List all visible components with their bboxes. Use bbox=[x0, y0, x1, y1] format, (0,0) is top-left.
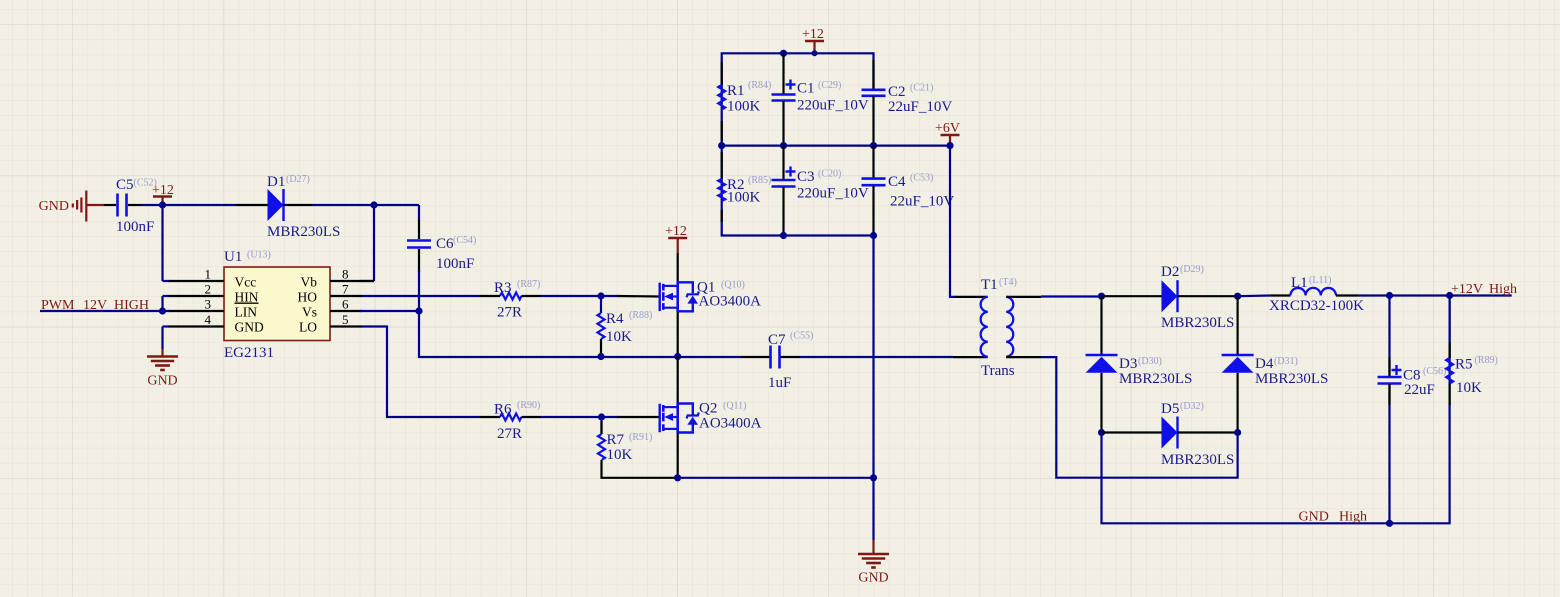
wire +12 rail to D1 bbox=[163, 204, 237, 206]
transformer T1 secondary lead top bbox=[1006, 296, 1041, 298]
svg-text:D2: D2 bbox=[1161, 264, 1179, 280]
svg-text:HIN: HIN bbox=[235, 290, 259, 305]
wire D4 branch upper bbox=[1236, 296, 1238, 355]
svg-text:+12V: +12V bbox=[1451, 282, 1483, 297]
svg-text:C5: C5 bbox=[116, 177, 134, 193]
node +12/Vcc junction bbox=[159, 201, 166, 208]
net label PWM_12V_HIGH bbox=[41, 298, 149, 313]
svg-text:(C21): (C21) bbox=[910, 83, 933, 94]
wire Vs down to mid rail bbox=[419, 311, 601, 357]
svg-text:100K: 100K bbox=[727, 190, 761, 206]
svg-text:High: High bbox=[1489, 282, 1517, 297]
wire mid rail of RC network bbox=[722, 145, 950, 147]
svg-text:(R87): (R87) bbox=[517, 279, 540, 290]
svg-text:(C54): (C54) bbox=[453, 235, 476, 246]
ground GND under U1 bbox=[147, 349, 178, 389]
resistor R5 bbox=[1446, 296, 1498, 406]
wire secondary top to bridge bbox=[1041, 295, 1102, 297]
svg-text:GND: GND bbox=[235, 320, 264, 335]
svg-text:(C20): (C20) bbox=[818, 169, 841, 180]
diode D5 bbox=[1102, 401, 1238, 468]
pin 3 LIN bbox=[163, 297, 225, 312]
svg-text:GND: GND bbox=[39, 199, 69, 214]
svg-text:L1: L1 bbox=[1291, 275, 1308, 291]
svg-text:4: 4 bbox=[205, 312, 212, 327]
svg-text:5: 5 bbox=[342, 312, 349, 327]
diode D2 bbox=[1102, 264, 1238, 331]
svg-text:(C29): (C29) bbox=[818, 80, 841, 91]
wire PWM input bbox=[40, 310, 163, 312]
svg-text:AO3400A: AO3400A bbox=[699, 416, 762, 432]
wire D3 branch upper bbox=[1100, 296, 1102, 355]
svg-text:LO: LO bbox=[299, 320, 317, 335]
svg-text:U1: U1 bbox=[224, 249, 242, 265]
pin 2 HIN bbox=[163, 282, 225, 297]
wire HIN-LIN tie bbox=[161, 296, 163, 311]
node half-bridge mid junction bbox=[674, 353, 681, 360]
resistor R4 bbox=[598, 296, 653, 357]
svg-text:22uF_10V: 22uF_10V bbox=[890, 194, 954, 210]
svg-text:(C55): (C55) bbox=[790, 331, 813, 342]
svg-text:(R85): (R85) bbox=[748, 175, 771, 186]
svg-text:220uF_10V: 220uF_10V bbox=[797, 186, 869, 202]
wire rectified gnd down bbox=[1102, 296, 1450, 523]
resistor R3 bbox=[480, 279, 541, 321]
node bridge top-left junction bbox=[1098, 293, 1105, 300]
svg-text:LIN: LIN bbox=[235, 305, 258, 320]
svg-text:(R89): (R89) bbox=[1475, 355, 1498, 366]
diode D4 bbox=[1222, 355, 1329, 387]
wire gate lead Q2 bbox=[617, 416, 660, 418]
svg-text:Trans: Trans bbox=[981, 363, 1015, 379]
node GND column top junction bbox=[870, 232, 877, 239]
wire Q2 source down bbox=[677, 434, 679, 478]
svg-text:GND: GND bbox=[147, 374, 177, 389]
svg-text:(L11): (L11) bbox=[1309, 275, 1331, 286]
net label +12V_High bbox=[1451, 282, 1517, 297]
wire GND column bbox=[872, 236, 874, 541]
svg-text:(C56): (C56) bbox=[1423, 366, 1446, 377]
node R7 top junction bbox=[598, 413, 605, 420]
pin 8 Vb bbox=[330, 267, 374, 282]
wire C6 to Vs node bbox=[418, 270, 420, 311]
resistor R7 bbox=[598, 417, 678, 478]
node R4 bottom junction bbox=[597, 353, 604, 360]
node C2-C4 junction bbox=[870, 142, 877, 149]
svg-text:(Q11): (Q11) bbox=[723, 401, 747, 412]
svg-text:2: 2 bbox=[205, 282, 212, 297]
node C8 bottom junction bbox=[1386, 520, 1393, 527]
transformer T1 primary lead bottom bbox=[953, 356, 988, 358]
wire Q1-Q2 interstage bbox=[677, 357, 679, 403]
svg-text:R7: R7 bbox=[607, 432, 625, 448]
pin 1 Vcc bbox=[163, 267, 225, 282]
svg-text:1: 1 bbox=[205, 267, 212, 282]
svg-text:100nF: 100nF bbox=[116, 219, 154, 235]
transformer T1 primary lead top bbox=[955, 296, 988, 298]
node C1-C3 junction bbox=[780, 142, 787, 149]
svg-text:R5: R5 bbox=[1455, 357, 1473, 373]
svg-text:10K: 10K bbox=[1456, 380, 1482, 396]
svg-text:MBR230LS: MBR230LS bbox=[267, 224, 340, 240]
wire Q1 source to mid rail bbox=[677, 312, 679, 356]
node Q2 source junction bbox=[674, 474, 681, 481]
node R5 top junction bbox=[1446, 292, 1453, 299]
pin 5 LO bbox=[330, 312, 362, 327]
svg-text:MBR230LS: MBR230LS bbox=[1161, 452, 1234, 468]
wire C7 to transformer bbox=[800, 356, 953, 358]
transistor Q1 AO3400A bbox=[660, 280, 761, 313]
wire Vcc vertical bbox=[161, 205, 163, 281]
svg-text:C4: C4 bbox=[888, 174, 906, 190]
svg-text:(D32): (D32) bbox=[1180, 401, 1204, 412]
node Vb junction bbox=[370, 201, 377, 208]
svg-text:R6: R6 bbox=[494, 402, 512, 418]
wire LO to R6 corner bbox=[362, 327, 480, 418]
node bridge top-right junction bbox=[1234, 293, 1241, 300]
pin 7 HO bbox=[330, 282, 362, 297]
svg-text:22uF_10V: 22uF_10V bbox=[888, 99, 952, 115]
svg-text:(R91): (R91) bbox=[629, 432, 652, 443]
diode D3 bbox=[1086, 355, 1193, 387]
power port +12 at U1 bbox=[152, 183, 174, 205]
svg-text:D4: D4 bbox=[1255, 356, 1274, 372]
diode D1 bbox=[236, 174, 340, 240]
pin 4 GND bbox=[163, 312, 225, 327]
power port +6V bbox=[935, 121, 960, 146]
power port +12 top bbox=[802, 27, 824, 53]
capacitor C7 bbox=[741, 331, 813, 392]
node R1-R2 junction bbox=[718, 142, 725, 149]
svg-text:R3: R3 bbox=[494, 280, 512, 296]
wire C1 column top bbox=[782, 53, 784, 94]
wire pin4 to ground bbox=[161, 327, 163, 350]
svg-text:(D31): (D31) bbox=[1274, 356, 1298, 367]
svg-text:Vs: Vs bbox=[302, 305, 317, 320]
node D5 right junction bbox=[1234, 429, 1241, 436]
svg-text:(R84): (R84) bbox=[748, 80, 771, 91]
wire secondary bottom loop bbox=[1041, 357, 1238, 478]
wire L1 to output bbox=[1358, 294, 1512, 296]
wire top rail bbox=[722, 53, 874, 145]
svg-text:27R: 27R bbox=[497, 426, 522, 442]
node +12 tap bbox=[812, 50, 818, 56]
wire Q1 drain bbox=[677, 253, 679, 281]
inductor L1 bbox=[1238, 275, 1365, 314]
svg-text:MBR230LS: MBR230LS bbox=[1119, 371, 1192, 387]
wire gate lead Q1 bbox=[617, 295, 660, 298]
transformer T1 windings bbox=[981, 277, 1017, 379]
node C8 top junction bbox=[1386, 292, 1393, 299]
resistor R1 bbox=[718, 62, 771, 141]
transformer T1 secondary lead bottom bbox=[1006, 356, 1041, 358]
svg-text:MBR230LS: MBR230LS bbox=[1161, 315, 1234, 331]
wire D4 branch lower bbox=[1236, 373, 1238, 433]
wire mid rail to C7 bbox=[601, 356, 741, 358]
wire junction down to pin 8 Vb bbox=[373, 205, 375, 281]
wire bottom rail of RC network bbox=[722, 222, 874, 236]
svg-text:8: 8 bbox=[342, 267, 349, 282]
svg-text:6: 6 bbox=[342, 297, 349, 312]
node C1 top junction bbox=[780, 50, 787, 57]
svg-text:1uF: 1uF bbox=[768, 375, 791, 391]
svg-text:MBR230LS: MBR230LS bbox=[1255, 371, 1328, 387]
svg-text:C6: C6 bbox=[436, 236, 454, 252]
svg-text:(R90): (R90) bbox=[517, 400, 540, 411]
svg-text:C7: C7 bbox=[768, 332, 786, 348]
wire +6V down to transformer bbox=[950, 146, 956, 297]
transistor Q2 AO3400A bbox=[660, 401, 762, 434]
power port +12 at Q1 drain bbox=[665, 224, 687, 253]
svg-text:D1: D1 bbox=[267, 174, 285, 190]
node R4 top junction bbox=[597, 292, 604, 299]
svg-text:GND: GND bbox=[1299, 510, 1329, 525]
svg-text:3: 3 bbox=[205, 297, 212, 312]
svg-text:C3: C3 bbox=[797, 169, 815, 185]
wire rail corner down to C6 bbox=[418, 205, 420, 221]
svg-text:(D29): (D29) bbox=[1180, 264, 1204, 275]
wire R3 to Q1 gate node bbox=[541, 295, 618, 297]
svg-text:10K: 10K bbox=[606, 329, 632, 345]
svg-text:220uF_10V: 220uF_10V bbox=[797, 98, 869, 114]
svg-text:R1: R1 bbox=[727, 83, 745, 99]
capacitor C3 polarized bbox=[772, 146, 869, 236]
svg-text:(C53): (C53) bbox=[910, 173, 933, 184]
svg-text:22uF: 22uF bbox=[1404, 382, 1435, 398]
svg-text:(Q10): (Q10) bbox=[721, 280, 745, 291]
power port GND left bbox=[39, 191, 104, 222]
svg-text:(D30): (D30) bbox=[1138, 356, 1162, 367]
svg-text:(D27): (D27) bbox=[286, 174, 310, 185]
svg-text:T1: T1 bbox=[981, 277, 998, 293]
capacitor C1 polarized bbox=[772, 80, 869, 146]
pin 6 Vs bbox=[330, 297, 362, 312]
wire C5 to +12 junction bbox=[141, 204, 163, 206]
capacitor C8 polarized bbox=[1378, 296, 1447, 524]
wire HO to R3 bbox=[362, 295, 480, 297]
svg-text:Vcc: Vcc bbox=[235, 275, 257, 290]
resistor R6 bbox=[480, 400, 541, 442]
node GND column source junction bbox=[870, 474, 877, 481]
wire source rail to GND column bbox=[678, 477, 874, 479]
svg-text:Vb: Vb bbox=[301, 275, 318, 290]
svg-text:XRCD32-100K: XRCD32-100K bbox=[1269, 298, 1364, 314]
node C3 bottom junction bbox=[780, 232, 787, 239]
svg-text:D3: D3 bbox=[1119, 356, 1137, 372]
svg-text:(R88): (R88) bbox=[629, 310, 652, 321]
svg-text:C2: C2 bbox=[888, 84, 906, 100]
svg-text:10K: 10K bbox=[607, 447, 633, 463]
svg-text:D5: D5 bbox=[1161, 401, 1179, 417]
svg-text:27R: 27R bbox=[497, 305, 522, 321]
svg-text:7: 7 bbox=[342, 282, 349, 297]
wire D3 branch lower bbox=[1100, 373, 1102, 433]
capacitor C4 bbox=[862, 146, 955, 236]
capacitor C2 bbox=[862, 60, 953, 146]
capacitor C6 bbox=[407, 220, 476, 272]
svg-text:Q2: Q2 bbox=[699, 401, 717, 417]
node Vs junction bbox=[415, 307, 422, 314]
node PWM junction bbox=[159, 307, 166, 314]
svg-text:C1: C1 bbox=[797, 81, 815, 97]
node +6V junction bbox=[946, 142, 953, 149]
net label GND_High bbox=[1299, 510, 1368, 525]
IC U1 EG2131 bbox=[224, 249, 330, 361]
svg-text:100K: 100K bbox=[727, 99, 761, 115]
svg-text:High: High bbox=[1339, 510, 1367, 525]
svg-text:(U13): (U13) bbox=[247, 250, 271, 261]
wire Vs row to junction bbox=[360, 310, 419, 312]
svg-text:(T4): (T4) bbox=[999, 277, 1017, 288]
ground GND bottom bbox=[858, 540, 889, 586]
svg-text:AO3400A: AO3400A bbox=[699, 294, 762, 310]
capacitor C5 bbox=[104, 177, 157, 235]
resistor R2 bbox=[718, 146, 771, 222]
node D5 left junction bbox=[1098, 429, 1105, 436]
wire R6 to Q2 gate node bbox=[541, 416, 618, 418]
svg-text:GND: GND bbox=[858, 571, 888, 586]
svg-text:EG2131: EG2131 bbox=[224, 345, 274, 361]
svg-text:100nF: 100nF bbox=[436, 256, 474, 272]
svg-text:HO: HO bbox=[298, 290, 318, 305]
wire D1 to C6 corner bbox=[312, 204, 419, 206]
svg-text:R4: R4 bbox=[606, 311, 624, 327]
